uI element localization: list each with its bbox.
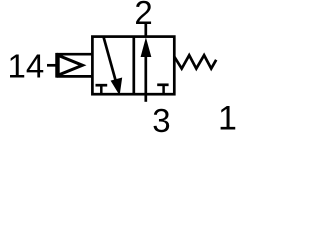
right position: flow path 1 to 2 (vertical line)	[144, 52, 147, 94]
port 1 connection stub (bottom)	[144, 94, 147, 102]
pilot actuator 14 (pneumatic pilot box on left)	[57, 53, 93, 78]
position divider line	[132, 37, 135, 95]
spring return (right side zigzag)	[174, 55, 216, 68]
svg-text:3: 3	[152, 102, 170, 139]
port 2 connection line (top)	[144, 24, 147, 37]
svg-text:14: 14	[8, 47, 45, 84]
pilot triangle (pressure actuation symbol)	[58, 55, 82, 75]
right position: blocked port T (port 3 blocked)	[157, 85, 168, 94]
valve body (3/2-way valve V1, two position boxes)	[92, 37, 174, 95]
left position: arrowhead pointing down to port 3	[111, 78, 122, 94]
left position: blocked port T (port 1 blocked)	[96, 85, 108, 94]
left position: flow path 2 to 3 (diagonal line)	[104, 37, 117, 83]
pilot line 14 lead	[47, 64, 57, 67]
svg-text:1: 1	[218, 100, 237, 138]
svg-text:2: 2	[134, 0, 152, 31]
right position: arrowhead pointing up to port 2	[141, 39, 151, 57]
